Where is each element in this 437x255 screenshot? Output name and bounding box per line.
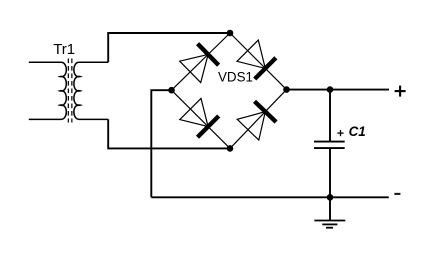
wire bridge edge left-top bbox=[172, 33, 231, 90]
svg-text:C1: C1 bbox=[349, 124, 366, 139]
node top junction bbox=[227, 30, 234, 37]
terminal minus bbox=[394, 193, 400, 195]
terminal plus bbox=[395, 86, 406, 97]
wire ground stem bbox=[329, 197, 331, 220]
wire bottom rail to minus terminal bbox=[151, 196, 388, 198]
wire secondary top lead up and to bridge top node bbox=[108, 33, 230, 62]
wire bridge right node to plus terminal bbox=[287, 89, 390, 91]
transformer Tr1 secondary winding bbox=[74, 62, 108, 119]
svg-text:Tr1: Tr1 bbox=[53, 41, 75, 58]
transformer Tr1 core bbox=[68, 59, 72, 123]
node rail junction bbox=[327, 194, 334, 201]
capacitor C1 plates bbox=[314, 142, 345, 149]
wire bridge left node to lower-left corner bbox=[151, 90, 171, 197]
capacitor C1 polarity plus bbox=[337, 130, 343, 136]
ground bbox=[314, 221, 345, 228]
node bottom junction bbox=[227, 145, 234, 152]
diode D4 (bottom node to right node) bbox=[237, 101, 276, 140]
node right junction bbox=[283, 86, 290, 93]
wire bridge edge bottom-right bbox=[230, 90, 287, 149]
svg-text:VDS1: VDS1 bbox=[218, 70, 253, 85]
diode D1 (left node to top node) bbox=[180, 44, 219, 83]
diode D2 (top node to right node) bbox=[237, 40, 276, 79]
node left junction bbox=[168, 87, 175, 94]
diode D3 (left node to bottom node) bbox=[180, 98, 219, 137]
wire bridge edge top-right bbox=[230, 33, 287, 90]
node capacitor top junction bbox=[327, 86, 334, 93]
wire capacitor bottom to rail bbox=[329, 148, 331, 197]
wire bridge edge left-bottom bbox=[172, 90, 231, 148]
transformer Tr1 primary winding bbox=[29, 62, 67, 119]
wire capacitor top connection bbox=[329, 90, 331, 142]
wire secondary bottom lead down and to bridge bottom node bbox=[108, 119, 230, 148]
